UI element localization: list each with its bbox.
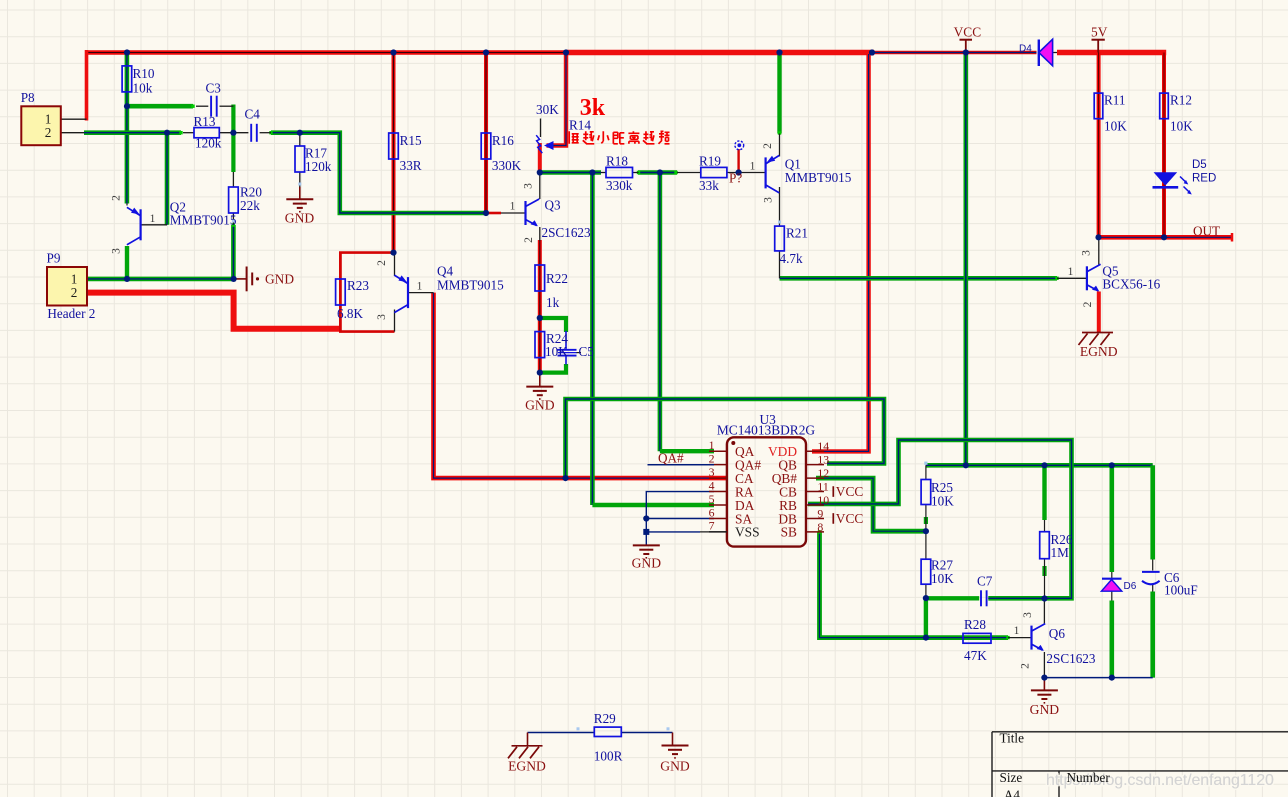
svg-text:1: 1 bbox=[150, 213, 156, 225]
svg-text:MMBT9015: MMBT9015 bbox=[170, 213, 237, 228]
svg-text:6: 6 bbox=[709, 505, 715, 519]
svg-text:R28: R28 bbox=[964, 617, 986, 632]
svg-text:10K: 10K bbox=[545, 344, 568, 359]
svg-text:R22: R22 bbox=[546, 271, 568, 286]
svg-text:GND: GND bbox=[265, 272, 294, 287]
svg-text:47K: 47K bbox=[964, 648, 987, 663]
svg-text:2: 2 bbox=[376, 260, 388, 266]
svg-text:14: 14 bbox=[817, 439, 829, 453]
svg-text:6.8K: 6.8K bbox=[337, 306, 363, 321]
svg-text:2: 2 bbox=[762, 143, 774, 149]
svg-text:P?: P? bbox=[729, 171, 742, 186]
svg-text:5: 5 bbox=[709, 492, 715, 506]
svg-text:BCX56-16: BCX56-16 bbox=[1102, 277, 1160, 292]
svg-text:33R: 33R bbox=[400, 158, 422, 173]
svg-text:3: 3 bbox=[1022, 612, 1034, 618]
svg-text:R21: R21 bbox=[786, 226, 808, 241]
svg-text:Q6: Q6 bbox=[1049, 626, 1066, 641]
svg-text:MC14013BDR2G: MC14013BDR2G bbox=[717, 423, 816, 438]
svg-text:330k: 330k bbox=[606, 178, 633, 193]
svg-text:33k: 33k bbox=[699, 178, 719, 193]
svg-text:R13: R13 bbox=[194, 114, 216, 129]
svg-text:P8: P8 bbox=[21, 90, 35, 105]
svg-text:10K: 10K bbox=[931, 571, 954, 586]
svg-text:Q3: Q3 bbox=[545, 198, 562, 213]
svg-text:A4: A4 bbox=[1004, 788, 1021, 797]
svg-text:Number: Number bbox=[1067, 770, 1111, 785]
svg-text:1M: 1M bbox=[1051, 545, 1070, 560]
svg-text:2: 2 bbox=[45, 125, 52, 140]
svg-text:120k: 120k bbox=[305, 159, 332, 174]
svg-text:C5: C5 bbox=[579, 344, 595, 359]
svg-text:C3: C3 bbox=[206, 81, 222, 96]
svg-text:VSS: VSS bbox=[735, 525, 760, 540]
svg-text:EGND: EGND bbox=[508, 759, 546, 774]
svg-text:GND: GND bbox=[632, 556, 662, 571]
svg-text:OUT: OUT bbox=[1193, 224, 1220, 239]
svg-text:11: 11 bbox=[817, 480, 828, 494]
svg-text:3k: 3k bbox=[580, 95, 606, 121]
svg-text:330K: 330K bbox=[492, 158, 522, 173]
svg-text:SB: SB bbox=[781, 525, 797, 540]
svg-text:120k: 120k bbox=[195, 136, 222, 151]
svg-text:22k: 22k bbox=[240, 198, 260, 213]
svg-text:P9: P9 bbox=[47, 251, 61, 266]
svg-text:4.7k: 4.7k bbox=[780, 251, 803, 266]
svg-text:8: 8 bbox=[817, 520, 823, 534]
svg-text:GND: GND bbox=[525, 398, 555, 413]
svg-text:3: 3 bbox=[709, 465, 715, 479]
svg-text:1: 1 bbox=[1014, 625, 1020, 637]
svg-text:RED: RED bbox=[1192, 173, 1216, 185]
svg-text:2: 2 bbox=[1020, 663, 1032, 669]
svg-text:R23: R23 bbox=[347, 278, 369, 293]
svg-text:2SC1623: 2SC1623 bbox=[542, 225, 592, 240]
svg-text:R10: R10 bbox=[133, 66, 155, 81]
svg-text:3: 3 bbox=[376, 314, 388, 320]
svg-text:1: 1 bbox=[750, 161, 756, 173]
svg-text:D6: D6 bbox=[1124, 581, 1137, 592]
svg-text:2: 2 bbox=[709, 451, 715, 465]
svg-text:10K: 10K bbox=[1170, 119, 1193, 134]
svg-text:1: 1 bbox=[417, 281, 423, 293]
svg-text:2: 2 bbox=[71, 285, 78, 300]
svg-text:100R: 100R bbox=[594, 749, 623, 764]
svg-text:Header 2: Header 2 bbox=[47, 306, 95, 321]
svg-text:R19: R19 bbox=[699, 154, 721, 169]
svg-text:MMBT9015: MMBT9015 bbox=[437, 278, 504, 293]
svg-text:Title: Title bbox=[1000, 731, 1025, 746]
svg-text:C7: C7 bbox=[977, 574, 993, 589]
svg-text:C4: C4 bbox=[245, 107, 261, 122]
svg-text:R18: R18 bbox=[606, 154, 628, 169]
svg-text:Size: Size bbox=[1000, 770, 1023, 785]
svg-text:2SC1623: 2SC1623 bbox=[1046, 651, 1096, 666]
svg-text:VCC: VCC bbox=[954, 25, 982, 40]
svg-text:3: 3 bbox=[763, 197, 775, 203]
svg-text:5V: 5V bbox=[1091, 25, 1108, 40]
svg-text:R16: R16 bbox=[492, 133, 514, 148]
svg-text:3: 3 bbox=[523, 183, 535, 189]
svg-text:10k: 10k bbox=[133, 81, 153, 96]
svg-text:1k: 1k bbox=[546, 295, 560, 310]
svg-text:1: 1 bbox=[709, 438, 715, 452]
svg-text:VCC: VCC bbox=[836, 511, 864, 526]
svg-text:GND: GND bbox=[285, 211, 315, 226]
svg-text:9: 9 bbox=[817, 506, 823, 520]
svg-text:10K: 10K bbox=[931, 494, 954, 509]
svg-text:R12: R12 bbox=[1170, 93, 1192, 108]
svg-text:R29: R29 bbox=[594, 711, 616, 726]
svg-text:100uF: 100uF bbox=[1164, 583, 1198, 598]
svg-text:4: 4 bbox=[709, 478, 715, 492]
svg-text:13: 13 bbox=[817, 453, 829, 467]
svg-text:30K: 30K bbox=[536, 102, 559, 117]
svg-text:R11: R11 bbox=[1104, 93, 1126, 108]
svg-text:GND: GND bbox=[1030, 702, 1060, 717]
svg-text:10: 10 bbox=[817, 493, 829, 507]
svg-text:1: 1 bbox=[1068, 266, 1074, 278]
svg-text:2: 2 bbox=[111, 195, 123, 201]
svg-text:R15: R15 bbox=[400, 133, 422, 148]
svg-text:12: 12 bbox=[817, 466, 829, 480]
svg-text:QA#: QA# bbox=[658, 451, 684, 466]
svg-text:MMBT9015: MMBT9015 bbox=[785, 170, 852, 185]
svg-text:1: 1 bbox=[510, 201, 516, 213]
svg-text:3: 3 bbox=[1081, 250, 1093, 256]
svg-text:7: 7 bbox=[709, 519, 715, 533]
svg-text:Q4: Q4 bbox=[437, 264, 454, 279]
svg-text:VCC: VCC bbox=[836, 484, 864, 499]
svg-text:3: 3 bbox=[111, 248, 123, 254]
svg-text:D4: D4 bbox=[1019, 44, 1032, 55]
svg-text:2: 2 bbox=[523, 237, 535, 243]
svg-text:D5: D5 bbox=[1192, 159, 1207, 171]
svg-text:EGND: EGND bbox=[1080, 344, 1118, 359]
svg-text:GND: GND bbox=[660, 759, 690, 774]
svg-text:2: 2 bbox=[1082, 301, 1094, 307]
svg-text:10K: 10K bbox=[1104, 119, 1127, 134]
